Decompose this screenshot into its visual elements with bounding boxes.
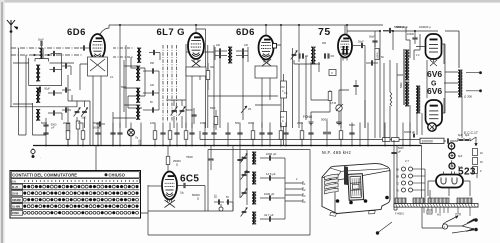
tube V3 6D6	[259, 36, 277, 63]
resistor grid leak	[390, 92, 392, 106]
wire drop x410	[409, 123, 411, 147]
resistor V2 screen	[206, 63, 210, 90]
wire vertical x186	[185, 44, 187, 128]
resistor series box a	[383, 138, 391, 142]
svg-text:Ω 300: Ω 300	[464, 95, 472, 99]
svg-text:5000: 5000	[321, 118, 328, 122]
capacitor C192 to chassis	[189, 123, 194, 147]
svg-text:100: 100	[78, 121, 83, 125]
svg-text:100000: 100000	[422, 139, 433, 143]
wire antenna down-lead	[10, 32, 12, 107]
svg-text:50000: 50000	[93, 126, 101, 130]
antenna coil L1	[40, 48, 44, 59]
wire MF box right	[309, 150, 311, 236]
capacitor C240 to chassis	[235, 121, 243, 146]
wire mid drops	[233, 146, 247, 212]
capacitor C120 to chassis	[117, 123, 122, 147]
diode trimmer a	[291, 51, 298, 60]
variable capacitor CV1a	[74, 108, 81, 117]
svg-text:1000 μF: 1000 μF	[266, 152, 277, 156]
resistor 25000 to 6C5	[166, 146, 181, 172]
svg-text:100: 100	[216, 44, 221, 47]
capacitor row2b	[62, 63, 71, 75]
wire drop x368	[367, 123, 369, 147]
label 5000 v	[400, 82, 403, 88]
resistor chain	[473, 149, 484, 174]
capacitor c211	[208, 146, 213, 171]
contact dumbbell left	[33, 54, 38, 56]
capacitor coupling c370	[366, 60, 378, 65]
capacitor row4b	[62, 107, 71, 112]
wire V2 pins	[186, 52, 214, 128]
svg-text:6D6: 6D6	[67, 27, 86, 38]
resistor small box 75	[329, 70, 336, 76]
speaker terminal b	[479, 89, 482, 92]
wire V5V6 plates	[416, 44, 445, 132]
tube V1 base	[88, 57, 108, 76]
radio cabinet illustration	[322, 164, 390, 217]
output transformer T5	[458, 70, 462, 98]
capacitor MF1	[260, 152, 285, 161]
svg-text:M.F. 465 kHz: M.F. 465 kHz	[322, 150, 351, 155]
capacitor audio c1	[353, 80, 358, 95]
capacitor T3 left b	[302, 53, 308, 58]
svg-text:500: 500	[235, 121, 240, 125]
wire elcap stack	[451, 149, 453, 174]
arrow down	[475, 137, 478, 146]
scan edge top	[3, 0, 500, 3]
resistor R 1M b	[281, 98, 287, 146]
MF detail box frame	[208, 150, 310, 212]
wire V1 base drops	[80, 64, 101, 146]
svg-text:10μ: 10μ	[180, 192, 185, 195]
capacitor row2	[50, 67, 62, 72]
capacitor C98 to chassis	[93, 121, 101, 146]
tube V7 6C5	[162, 172, 177, 203]
trimmer T1a	[149, 50, 160, 60]
coil L1 box	[35, 59, 49, 62]
resistor vol 500000	[375, 49, 379, 60]
wire pin to transformer	[422, 146, 431, 204]
wire vertical x281	[280, 25, 282, 128]
capacitor C270 to chassis	[267, 123, 272, 147]
svg-text:50μF: 50μF	[44, 88, 50, 91]
power transformer core and windings	[394, 198, 478, 207]
pilot lamp	[128, 123, 139, 147]
switch contact table CONTATTI DEL COMMUTATORE	[10, 171, 141, 219]
potentiometer volume	[336, 104, 343, 111]
capacitor T2 left a	[215, 48, 227, 53]
capacitor C228 to chassis	[225, 123, 230, 147]
wire jack links	[221, 202, 233, 211]
tube V2 base	[186, 60, 206, 76]
wire 523 links	[428, 181, 470, 196]
svg-text:FONO: FONO	[12, 212, 19, 215]
antenna coil L4 pair	[36, 109, 40, 121]
wire drop x403	[402, 123, 404, 147]
svg-text:100: 100	[150, 121, 155, 125]
wire transformer taps	[424, 207, 470, 216]
wire V2 top to bus	[196, 25, 208, 128]
IF transformer T1	[137, 48, 141, 63]
svg-text:10000: 10000	[407, 33, 415, 36]
svg-text:2500: 2500	[297, 121, 303, 125]
resistor R83 to chassis	[78, 121, 85, 146]
capacitor V2 cathode	[186, 108, 197, 124]
switch gang line A	[162, 45, 164, 122]
tube V7 base cross	[165, 200, 176, 208]
wire V1 screen staircase	[128, 57, 145, 108]
svg-text:5000: 5000	[210, 107, 216, 110]
capacitor C311 to chassis	[308, 123, 313, 147]
resistor V2 cathode R	[210, 107, 218, 130]
svg-text:14,5 μF: 14,5 μF	[266, 172, 276, 176]
svg-text:50000: 50000	[186, 109, 193, 112]
wire drop x360	[359, 123, 361, 147]
wire T2 links	[215, 47, 248, 128]
capacitor k54	[51, 51, 62, 62]
capacitor C163 to chassis	[160, 123, 165, 147]
tube V4 75	[338, 35, 352, 61]
capacitor C177 to chassis	[174, 123, 179, 147]
resistor R68 to chassis	[63, 121, 71, 146]
svg-text:50000: 50000	[377, 52, 379, 59]
plug dot left	[376, 231, 379, 234]
svg-text:CONTATTI DEL COMMUTATORE: CONTATTI DEL COMMUTATORE	[12, 172, 77, 177]
wire V4 top to bus	[344, 25, 346, 35]
speaker terminal a	[479, 71, 482, 74]
wire 6C5 heater	[148, 185, 162, 187]
wire T4 links	[397, 27, 420, 140]
svg-text:75: 75	[318, 26, 331, 38]
svg-text:Ω: Ω	[176, 163, 178, 167]
resistor R302 to chassis	[297, 121, 304, 146]
variable capacitor CV2b	[179, 107, 186, 116]
ground pot	[336, 120, 341, 125]
svg-text:F 46510: F 46510	[395, 213, 404, 216]
capacitor C262 to chassis	[259, 123, 264, 147]
switch dashes right of tube	[113, 47, 134, 49]
tube V5 base cross	[430, 59, 437, 66]
svg-text:6C5: 6C5	[180, 174, 199, 185]
resistor R281 to chassis	[279, 123, 283, 147]
svg-text:6V6: 6V6	[427, 86, 442, 96]
tube V8 523	[436, 172, 463, 188]
svg-text:50μF: 50μF	[38, 39, 44, 42]
wire vertical x384	[383, 63, 385, 138]
svg-text:3000: 3000	[248, 121, 254, 125]
capacitor MF4	[260, 213, 285, 222]
jack circle	[219, 207, 223, 211]
svg-text:2:7: 2:7	[405, 159, 409, 163]
wire V3 top to bus	[265, 25, 267, 36]
svg-text:500: 500	[82, 116, 87, 120]
svg-text:50μF: 50μF	[358, 41, 364, 44]
wire left drop to bottom	[96, 146, 148, 214]
label HO 220	[437, 213, 461, 217]
wire vertical x375	[374, 31, 376, 138]
svg-text:OL-MM: OL-MM	[12, 205, 20, 208]
switch line band y55	[11, 54, 83, 56]
svg-text:100: 100	[150, 84, 155, 87]
svg-text:CHIUSO: CHIUSO	[109, 172, 126, 177]
trimmer L2	[39, 86, 50, 94]
wire vertical x120	[119, 25, 121, 128]
capacitor small mid	[413, 134, 414, 138]
antenna coil L2 pair	[36, 65, 40, 82]
capacitor c375	[369, 36, 378, 48]
label 6V6 G 6V6	[427, 69, 442, 96]
wire 75 pins	[341, 25, 380, 138]
resistor R186 to chassis	[184, 123, 188, 147]
svg-text:6V6: 6V6	[427, 69, 442, 79]
capacitor T2 right b	[236, 53, 248, 58]
svg-text:6D6: 6D6	[236, 27, 255, 38]
wire gang1 bottom	[68, 101, 90, 146]
resistor R bias left	[66, 124, 70, 147]
capacitor osc row3	[143, 107, 159, 112]
label 50000	[192, 193, 200, 201]
svg-text:1000 μF: 1000 μF	[264, 192, 275, 196]
MF detail trimmer d	[241, 208, 248, 217]
variable capacitor CV1b	[81, 108, 88, 117]
wire speaker field	[394, 140, 397, 210]
oscillator coil bank row1	[136, 66, 140, 81]
svg-text:pF: pF	[52, 127, 55, 130]
capacitor 8uf a	[458, 134, 463, 141]
chassis bus left	[33, 145, 422, 147]
tube pin grid	[396, 167, 425, 192]
wire gang2	[166, 100, 186, 128]
wire row4 links	[13, 103, 62, 135]
svg-text:50000: 50000	[93, 121, 101, 125]
MF terminals	[285, 158, 306, 219]
junction dots top bus	[119, 24, 416, 32]
wire y105 to stack	[255, 104, 281, 106]
wire OPT to psu	[461, 97, 463, 138]
trimmer T3a	[324, 53, 334, 58]
resistor R 1M a	[281, 74, 287, 98]
ground main	[31, 148, 35, 158]
wire psu links	[444, 137, 477, 178]
svg-text:1M: 1M	[281, 86, 284, 89]
svg-text:0,5: 0,5	[281, 116, 285, 119]
wire bottom left of psu	[378, 208, 443, 233]
capacitor T3 left a	[299, 53, 300, 58]
capacitor electrolytic C327	[321, 118, 331, 147]
electrolytic C 8uf c1	[449, 153, 463, 159]
wire zig links	[389, 90, 391, 138]
wire vertical x214	[213, 45, 215, 128]
capacitor 6C5 grid out	[177, 183, 205, 211]
svg-text:75000: 75000	[186, 156, 193, 159]
svg-text:8μF: 8μF	[458, 155, 463, 158]
switch mains	[443, 216, 458, 224]
wire drop x385	[384, 123, 386, 147]
wire vertical x286	[292, 48, 294, 128]
wire x393 drop	[392, 31, 394, 51]
wire with vertical label 1000	[139, 123, 142, 146]
oscillator coil bank row2	[136, 88, 140, 103]
capacitor osc row2	[143, 90, 159, 95]
svg-text:OM-MM: OM-MM	[12, 199, 21, 202]
MF coil unit2	[252, 172, 256, 185]
capacitor 8uf b	[465, 134, 470, 141]
capacitor jack b	[226, 196, 233, 205]
wire gang1 top	[68, 75, 90, 107]
resistor 100000 box	[420, 138, 444, 143]
wire V1 plate to bus	[100, 25, 109, 34]
wire vertical x390	[389, 60, 391, 90]
svg-text:5000: 5000	[336, 121, 342, 125]
tube V1 6D6	[90, 34, 105, 63]
capacitor C46 to chassis	[41, 121, 49, 146]
capacitor c46 5000pF	[43, 118, 57, 135]
capacitor osc row1	[143, 68, 159, 73]
electrolytic C 8uf c2	[449, 163, 463, 169]
MF coil unit4	[252, 212, 256, 225]
scan edge left	[0, 0, 5, 243]
capacitor grid 75	[353, 41, 365, 49]
trimmer capacitor antenna	[38, 39, 44, 48]
svg-text:5000: 5000	[121, 86, 127, 89]
resistor R253 to chassis	[248, 121, 255, 146]
contact dumbbell right	[45, 54, 50, 56]
wire vertical x365b	[364, 100, 366, 128]
capacitor C205 to chassis	[200, 121, 208, 146]
capacitor c247	[244, 171, 249, 172]
MF detail trimmer c	[241, 189, 248, 198]
tube V2 6L7G	[188, 33, 204, 62]
tiny box 26	[427, 210, 432, 214]
wire 6C5 box	[148, 185, 310, 235]
capacitor jack a	[214, 196, 224, 205]
wire row2 box	[13, 58, 74, 86]
svg-text:7a: 7a	[135, 136, 139, 140]
IF transformer T2	[228, 47, 232, 64]
electrolytic C main	[448, 143, 454, 149]
tube V3 base	[255, 59, 277, 78]
svg-text:5000: 5000	[41, 121, 47, 125]
resistor R 500	[76, 121, 80, 146]
wire plug leads	[448, 221, 474, 230]
resistor R170 to chassis	[168, 123, 172, 147]
tube V6 6V6	[426, 100, 443, 126]
plug circle	[442, 224, 447, 229]
antenna	[7, 20, 18, 33]
capacitor MF3	[260, 192, 285, 201]
MF coil unit3	[252, 192, 256, 205]
antenna coil L3 pair	[36, 88, 40, 103]
ground fono	[308, 120, 313, 125]
return line upper	[200, 131, 420, 140]
tube V5 6V6	[426, 34, 442, 59]
wire vertical x126	[125, 45, 127, 128]
oscillator coil bank row3	[136, 105, 140, 120]
wire speaker leads	[466, 73, 479, 91]
capacitor c415 top	[407, 31, 418, 44]
capacitor MF2	[260, 172, 285, 181]
capacitor c448 bus	[447, 138, 448, 143]
IF transformer T3	[311, 47, 316, 65]
svg-text:250: 250	[150, 62, 155, 65]
svg-text:465: 465	[322, 42, 327, 45]
wire left vertical x18	[18, 48, 20, 135]
trimmer 25	[241, 106, 251, 113]
svg-text:100: 100	[244, 44, 249, 47]
wire top bus right segment	[383, 31, 459, 68]
switch gang line B	[167, 45, 169, 122]
wire vertical x397	[396, 63, 398, 140]
capacitor T2 right a	[236, 48, 248, 53]
svg-text:100000 μ: 100000 μ	[419, 25, 431, 29]
wire left vertical x26	[25, 55, 27, 135]
resistor R155 to chassis	[150, 121, 157, 146]
capacitor row4	[48, 110, 62, 115]
svg-text:1000: 1000	[200, 121, 206, 125]
svg-text:50000 μF: 50000 μF	[404, 130, 415, 134]
capacitor T2 left b	[215, 53, 227, 58]
svg-text:20000: 20000	[63, 121, 71, 125]
wire V3 pins	[262, 45, 281, 128]
plug pin b	[452, 228, 478, 233]
wire T3 links	[294, 25, 330, 128]
wire long y107	[10, 106, 77, 108]
plug pin a	[467, 218, 478, 223]
svg-text:44,7 μF: 44,7 μF	[264, 213, 274, 217]
svg-text:25-50: 25-50	[12, 192, 19, 195]
resistor R341 to chassis	[336, 121, 343, 146]
capacitor field c	[391, 147, 404, 154]
capacitor row3	[48, 90, 62, 95]
capacitor C113 to chassis	[110, 123, 115, 147]
svg-text:M. 25: M. 25	[12, 186, 19, 189]
svg-text:1000: 1000	[139, 139, 142, 145]
svg-text:300: 300	[210, 66, 215, 69]
svg-text:50μF: 50μF	[369, 36, 375, 39]
svg-text:E.C.C.1T: E.C.C.1T	[464, 131, 478, 135]
capacitor coupling top	[383, 25, 405, 33]
wire avc y96	[208, 95, 278, 97]
capacitor c50000	[93, 121, 105, 129]
capacitor row3b	[62, 87, 71, 92]
tube V6 base circle	[428, 123, 436, 131]
resistor series box b	[392, 138, 400, 142]
wire grid cap V1	[80, 45, 90, 50]
wire pot links	[311, 90, 349, 120]
resistor audio a	[328, 90, 332, 112]
wire top B+ bus	[109, 24, 383, 26]
wire OPT links	[444, 72, 458, 92]
svg-text:8μF: 8μF	[458, 134, 463, 137]
field coil choke	[416, 86, 422, 136]
capacitor c240	[237, 156, 246, 161]
capacitor C352 to chassis	[349, 123, 354, 147]
switch gang line C	[171, 45, 173, 122]
svg-text:5000: 5000	[400, 82, 403, 88]
svg-text:6L7 G: 6L7 G	[157, 27, 185, 38]
capacitor C286 to chassis	[283, 123, 288, 147]
MF coil unit1	[252, 152, 256, 165]
switch line band y48	[11, 47, 83, 49]
wire osc links	[113, 60, 159, 146]
svg-text:0,5 M: 0,5 M	[330, 102, 336, 105]
svg-text:μF: μF	[398, 151, 401, 154]
MF detail trimmer a	[241, 154, 248, 163]
switch gang line D	[176, 45, 178, 122]
variable capacitor CV2a	[171, 107, 178, 116]
MF detail trimmer b	[241, 171, 248, 180]
